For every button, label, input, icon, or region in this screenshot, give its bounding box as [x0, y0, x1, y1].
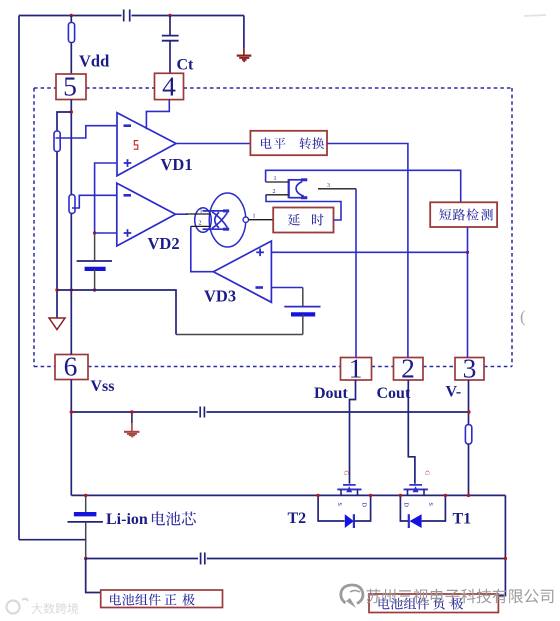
- wire Cout to T1 gate: [408, 380, 415, 484]
- wire VD3- input: [271, 287, 302, 289]
- svg-text:1: 1: [274, 176, 277, 182]
- node junction: [70, 410, 471, 413]
- wire: [468, 444, 470, 495]
- wire: [18, 16, 20, 540]
- watermark logo: [341, 585, 363, 608]
- svg-text:VD2: VD2: [148, 234, 180, 253]
- gate U1 (NOR in ellipse): [195, 193, 249, 247]
- svg-text:T2: T2: [288, 510, 307, 527]
- pin 2 box: [394, 353, 424, 384]
- svg-text:VD3: VD3: [204, 287, 236, 306]
- node junction: [84, 494, 470, 497]
- svg-text:2: 2: [273, 189, 276, 195]
- wire R1 branch: [57, 112, 71, 131]
- resistor R4 (V-): [465, 425, 471, 444]
- svg-text:G: G: [423, 471, 430, 476]
- wire: [19, 15, 122, 17]
- svg-text:1: 1: [253, 213, 256, 219]
- wire R1 tap to VD1-: [56, 126, 118, 138]
- svg-text:V-: V-: [446, 384, 462, 401]
- wire analog ground rail: [57, 290, 176, 335]
- power ground: [237, 48, 252, 63]
- node junction: [84, 557, 87, 560]
- op-amp VD1: [117, 113, 193, 176]
- block 电平转换 (level shift): [250, 131, 327, 155]
- node junction: [466, 251, 469, 254]
- svg-text:T1: T1: [453, 511, 472, 528]
- label Vss: [91, 378, 115, 395]
- signal ground: [49, 318, 65, 330]
- node junction Ct: [168, 14, 171, 17]
- svg-text:2: 2: [199, 221, 202, 227]
- svg-text:S: S: [336, 503, 342, 506]
- wire delay feedback: [266, 195, 341, 220]
- wire oscillator top: [266, 170, 461, 202]
- diode D1 (body): [400, 495, 445, 528]
- svg-text:Ct: Ct: [177, 57, 195, 74]
- svg-text:G: G: [343, 471, 350, 476]
- block 延时 (delay): [273, 208, 333, 233]
- wire VD2+ input: [95, 232, 117, 234]
- wire V- pin3 down: [468, 380, 470, 425]
- svg-text:Cout: Cout: [377, 385, 411, 402]
- pin 3 box: [455, 353, 484, 384]
- resistor R1 (Vdd): [68, 16, 74, 75]
- gate U2: [289, 179, 308, 198]
- battery B1: [77, 233, 112, 290]
- wire rail Vss: [71, 411, 469, 413]
- label Dout: [314, 385, 348, 402]
- gate U2 input stub 2: [266, 189, 289, 195]
- label V-: [446, 384, 462, 401]
- gate U2 input stub 1: [266, 176, 289, 182]
- wire: [19, 539, 86, 541]
- wire right side: [498, 495, 505, 595]
- wire VD1+ input: [95, 163, 117, 233]
- resistor R3: [54, 131, 60, 152]
- pin 6 box: [55, 351, 88, 382]
- svg-text:1: 1: [200, 208, 203, 214]
- op-amp VD2: [117, 183, 180, 253]
- IC boundary (dashed): [34, 88, 512, 367]
- wire VD3+ input: [271, 251, 467, 253]
- gate U1 input stub 1: [186, 208, 211, 214]
- label T2: [288, 510, 307, 527]
- label Ct: [177, 57, 195, 74]
- svg-text:5: 5: [63, 71, 77, 102]
- label Li-ion cell: [106, 511, 196, 528]
- capacitor Ct: [162, 16, 179, 74]
- wire: [70, 213, 72, 354]
- wire Vss pin6 down: [70, 380, 72, 496]
- cell Li-ion: [68, 495, 103, 592]
- svg-text:D: D: [361, 503, 367, 508]
- pin 4 box: [155, 71, 184, 102]
- wire bottom link: [86, 558, 506, 560]
- gate U1 output stub: [249, 213, 274, 219]
- wire VD2 output: [176, 213, 188, 215]
- svg-text:Li-ion: Li-ion: [106, 511, 148, 528]
- wire: [176, 334, 303, 336]
- wire rail bottom: [71, 494, 505, 496]
- gate U1 input stub 2: [191, 221, 211, 227]
- node junction: [316, 494, 372, 497]
- label Cout: [377, 385, 411, 402]
- wire level shift to pin2: [327, 144, 408, 358]
- pin 5 box: [56, 71, 86, 102]
- node junction: [70, 110, 73, 113]
- wire R2 tap to VD2-: [72, 195, 117, 208]
- transistor T2: [336, 471, 367, 508]
- node junction: [504, 557, 507, 560]
- capacitor C3: [201, 553, 205, 565]
- transistor T1: [403, 471, 434, 508]
- svg-text:4: 4: [162, 71, 176, 102]
- svg-text:D: D: [403, 503, 409, 508]
- pin 1 box: [341, 353, 372, 384]
- block 电池组件正极 (pack +): [101, 590, 223, 608]
- battery B2: [284, 288, 320, 335]
- svg-text:S: S: [427, 503, 433, 506]
- wire Vdd pin5 down: [70, 100, 72, 195]
- earth ground: [124, 410, 139, 438]
- wire short detect to pin3: [467, 227, 469, 358]
- smudge: [524, 15, 546, 16]
- svg-text:3: 3: [327, 183, 330, 189]
- block 短路检测 (short detect): [430, 202, 497, 227]
- svg-text:3: 3: [463, 353, 477, 384]
- svg-text:(: (: [520, 307, 526, 326]
- op-amp VD3: [204, 241, 271, 306]
- svg-text:VD1: VD1: [161, 155, 193, 174]
- wire U2 out to pin1: [355, 189, 357, 358]
- wire: [243, 16, 245, 49]
- diode D2 (body): [318, 495, 371, 528]
- wire to positive terminal: [86, 559, 101, 593]
- block 电池组件负极 (pack -): [369, 594, 498, 613]
- node junction: [55, 288, 96, 291]
- watermark paren: [520, 307, 526, 326]
- capacitor C1 (series, top): [124, 10, 130, 22]
- svg-text:Vdd: Vdd: [79, 52, 109, 71]
- resistor R2: [69, 195, 75, 214]
- gate U2 output stub: [318, 183, 356, 189]
- wire Dout to T2 gate: [350, 380, 356, 484]
- wire: [132, 15, 244, 17]
- label T1: [453, 511, 472, 528]
- svg-text:Vss: Vss: [91, 378, 115, 395]
- svg-text:Dout: Dout: [314, 385, 348, 402]
- label Vdd: [79, 52, 109, 71]
- capacitor C2: [200, 407, 204, 418]
- wire: [56, 152, 58, 319]
- watermark small: [7, 599, 79, 614]
- wire VD3 output: [191, 226, 214, 271]
- wire VD1 output: [176, 143, 250, 145]
- wire Ct to VD1: [146, 100, 169, 130]
- node junction: [93, 231, 96, 234]
- node junction Vdd: [70, 14, 73, 17]
- watermark text: [367, 589, 554, 604]
- svg-text:6: 6: [64, 351, 78, 382]
